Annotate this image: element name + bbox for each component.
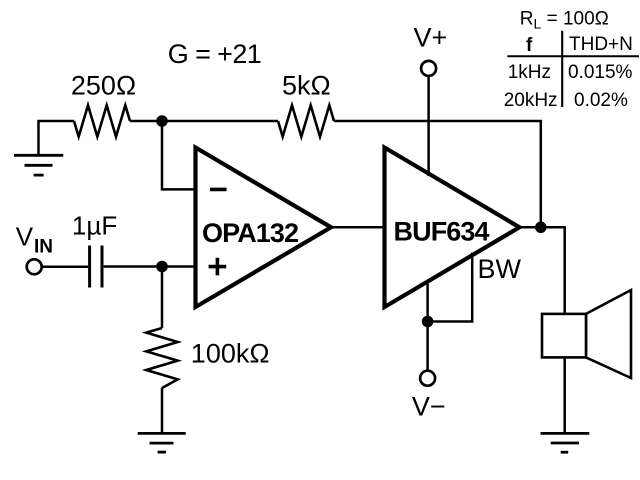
svg-text:OPA132: OPA132 xyxy=(202,218,298,248)
svg-text:IN: IN xyxy=(34,237,53,258)
ground (left, feedback network) xyxy=(14,155,63,175)
wire V+ to BUF634 top edge xyxy=(427,77,430,176)
svg-text:5kΩ: 5kΩ xyxy=(282,71,331,101)
svg-text:BUF634: BUF634 xyxy=(394,217,490,247)
svg-text:250Ω: 250Ω xyxy=(71,71,136,101)
capacitor C 1uF xyxy=(90,246,102,288)
wire VIN to capacitor xyxy=(43,266,88,269)
wire V- from BUF634 bottom edge to terminal xyxy=(426,280,429,370)
wire OPA132 output to BUF634 input xyxy=(331,226,385,229)
svg-text:1kHz: 1kHz xyxy=(508,62,551,83)
svg-text:BW: BW xyxy=(478,254,522,284)
op-amp U1 OPA132 triangle xyxy=(196,148,332,308)
wire BW pin from BUF634 bottom edge xyxy=(428,253,473,322)
svg-text:1µF: 1µF xyxy=(72,211,117,241)
table vertical separator xyxy=(561,31,563,107)
speaker cone xyxy=(586,290,631,378)
output wire BUF634 to speaker branch xyxy=(520,227,565,314)
wire 250 ohm to node A and to 5k resistor xyxy=(130,120,278,123)
svg-text:G = +21: G = +21 xyxy=(168,39,261,69)
svg-text:THD+N: THD+N xyxy=(569,34,633,55)
plus sign (non-inverting input) xyxy=(209,258,227,276)
svg-text:RL = 100Ω: RL = 100Ω xyxy=(520,8,609,31)
V+ terminal circle xyxy=(421,61,436,76)
wire node A down to op-amp inverting input xyxy=(162,121,196,189)
V- terminal circle xyxy=(420,371,435,386)
speaker box xyxy=(542,314,586,358)
svg-text:0.02%: 0.02% xyxy=(574,90,628,111)
node B junction dot (non-inverting input node) xyxy=(156,261,168,273)
resistor R 250 ohm xyxy=(74,105,130,136)
wire capacitor to op-amp non-inverting input xyxy=(104,265,196,268)
ground (below speaker) xyxy=(541,433,590,452)
table header underline xyxy=(507,55,639,57)
resistor R 5k ohm (feedback) xyxy=(278,105,334,136)
svg-text:V: V xyxy=(16,221,34,251)
wire speaker to ground xyxy=(563,357,566,433)
wire node B down to 100k resistor xyxy=(161,267,164,329)
buffer U2 BUF634 triangle xyxy=(385,148,520,308)
minus sign (inverting input) xyxy=(210,188,227,192)
junction dot on V- wire (BW tie) xyxy=(422,316,434,328)
svg-text:20kHz: 20kHz xyxy=(504,90,558,111)
svg-text:V−: V− xyxy=(412,392,446,422)
resistor R 100k ohm xyxy=(146,328,177,388)
svg-text:V+: V+ xyxy=(414,23,448,53)
svg-text:0.015%: 0.015% xyxy=(568,62,633,83)
output node junction dot xyxy=(535,222,547,234)
feedback wire from 5k to output node xyxy=(334,121,541,227)
svg-text:f: f xyxy=(526,35,533,56)
input terminal VIN circle xyxy=(27,259,42,274)
wire 100k resistor to ground xyxy=(161,388,164,433)
wire from left ground to 250 ohm resistor xyxy=(39,121,75,155)
node A junction dot (inverting input node) xyxy=(156,115,168,127)
svg-text:100kΩ: 100kΩ xyxy=(191,339,270,369)
ground (below 100k resistor) xyxy=(138,433,186,452)
